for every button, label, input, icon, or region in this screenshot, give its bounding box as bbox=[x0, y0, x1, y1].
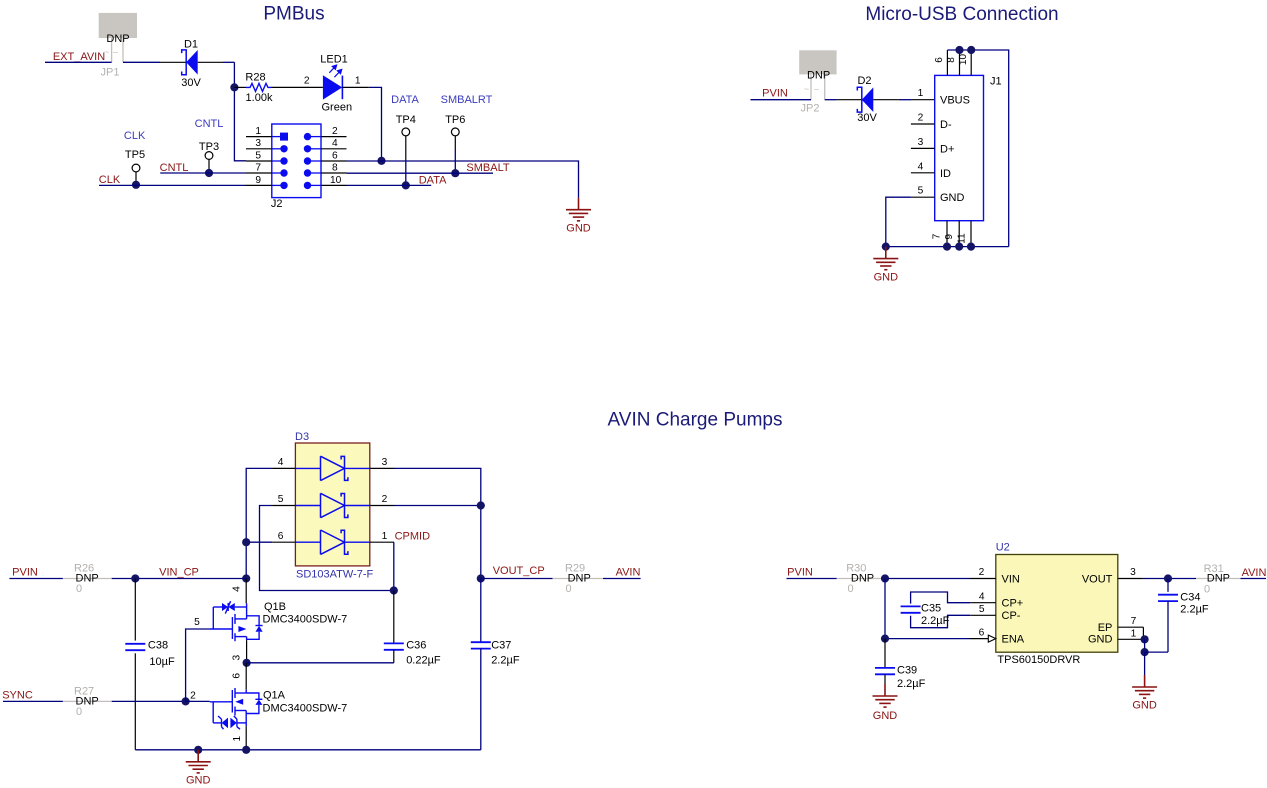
junction EP/GND bbox=[1141, 635, 1149, 643]
svg-text:CLK: CLK bbox=[124, 130, 146, 142]
svg-text:–: – bbox=[113, 47, 118, 57]
wire PVIN (U2) bbox=[787, 578, 837, 580]
svg-text:2: 2 bbox=[918, 113, 924, 124]
svg-text:3: 3 bbox=[918, 137, 924, 148]
wire CLK row9 bbox=[99, 184, 246, 186]
wire R31 to AVIN bbox=[1241, 578, 1267, 580]
round pads bbox=[280, 145, 287, 152]
channel stubs bbox=[235, 692, 246, 694]
svg-text:9: 9 bbox=[944, 234, 955, 240]
junction GND symbol bbox=[194, 746, 202, 754]
junction VOUT/C34 bbox=[1164, 574, 1172, 582]
resistor R29 DNP 0 bbox=[553, 578, 604, 580]
svg-text:1: 1 bbox=[255, 126, 261, 137]
svg-text:DNP: DNP bbox=[851, 572, 874, 584]
wire D3 pin5 down to CPMID bbox=[260, 506, 394, 591]
transistor Q1B DMC3400SDW-7 bbox=[209, 579, 347, 663]
capacitor C37 2.2uF bbox=[480, 579, 482, 643]
svg-text:D2: D2 bbox=[857, 75, 871, 87]
wire D3 pin4/pin6 left vertical bbox=[246, 468, 272, 578]
source lead to GND row bbox=[245, 726, 247, 750]
wire R30 to VIN bbox=[881, 578, 970, 580]
svg-text:GND: GND bbox=[186, 775, 211, 787]
svg-text:4: 4 bbox=[278, 457, 284, 468]
svg-text:3: 3 bbox=[382, 457, 388, 468]
svg-text:0: 0 bbox=[566, 583, 572, 595]
wire LED1 to row6 bbox=[342, 86, 368, 88]
svg-text:EP: EP bbox=[1098, 622, 1113, 634]
wire C34 bottom to junction bbox=[1145, 651, 1168, 653]
channel arrow bbox=[238, 626, 246, 632]
svg-text:2: 2 bbox=[190, 691, 196, 702]
svg-text:10: 10 bbox=[958, 54, 969, 66]
svg-text:U2: U2 bbox=[996, 542, 1010, 554]
svg-text:GND: GND bbox=[940, 192, 965, 204]
svg-text:8: 8 bbox=[332, 162, 338, 173]
wire R29 to AVIN bbox=[603, 578, 641, 580]
svg-text:1: 1 bbox=[382, 531, 388, 542]
body diode triangle bbox=[256, 626, 263, 632]
svg-text:30V: 30V bbox=[181, 77, 201, 89]
svg-text:EXT_AVIN: EXT_AVIN bbox=[53, 51, 105, 63]
wire PVIN bbox=[751, 99, 812, 101]
capacitor C34 2.2uF bbox=[1167, 579, 1169, 592]
wire pin3 to C36 bbox=[247, 662, 394, 664]
wire PVIN to ENA bbox=[884, 579, 886, 639]
svg-text:DNP: DNP bbox=[1207, 573, 1230, 585]
svg-text:TP6: TP6 bbox=[445, 114, 465, 126]
svg-text:TP4: TP4 bbox=[396, 114, 416, 126]
pin leads bbox=[970, 579, 1145, 640]
ENA input arrow bbox=[988, 635, 996, 642]
svg-text:CNTL: CNTL bbox=[160, 162, 189, 174]
gate bar bbox=[231, 617, 233, 639]
test point TP3 bbox=[199, 141, 219, 177]
wire to Q1A gate bbox=[186, 700, 210, 702]
svg-text:D3: D3 bbox=[295, 431, 309, 443]
svg-text:3: 3 bbox=[231, 655, 242, 661]
svg-text:6: 6 bbox=[979, 627, 985, 638]
zener bars with ticks bbox=[221, 719, 223, 727]
svg-text:C35: C35 bbox=[921, 603, 941, 615]
wire JP1 to D1 bbox=[123, 61, 160, 63]
svg-text:AVIN Charge Pumps: AVIN Charge Pumps bbox=[608, 410, 783, 431]
svg-text:2.2µF: 2.2µF bbox=[897, 678, 926, 690]
svg-text:J1: J1 bbox=[990, 76, 1002, 88]
wire R26 to VIN_CP bbox=[112, 578, 247, 580]
transistor Q1A DMC3400SDW-7 bbox=[210, 663, 348, 750]
svg-text:0: 0 bbox=[76, 706, 82, 718]
wire EXT_AVIN bbox=[45, 61, 112, 63]
diode D3a bbox=[321, 456, 348, 480]
junction SYNC gates bbox=[182, 697, 190, 705]
svg-text:CNTL: CNTL bbox=[195, 118, 224, 130]
svg-text:30V: 30V bbox=[857, 112, 877, 124]
junction top 8 bbox=[955, 46, 963, 54]
svg-text:3: 3 bbox=[1130, 567, 1136, 578]
wire D3 pin2 bbox=[394, 505, 481, 507]
pin names bbox=[1002, 573, 1113, 645]
svg-text:GND: GND bbox=[566, 223, 591, 235]
junction R28 bbox=[230, 83, 238, 91]
test point TP4 bbox=[396, 114, 416, 189]
svg-text:6: 6 bbox=[278, 531, 284, 542]
pin numbers bbox=[979, 567, 1137, 639]
svg-text:C37: C37 bbox=[491, 640, 511, 652]
wire D3 pin3 right vertical bbox=[394, 468, 481, 578]
junction VIN_CP bbox=[242, 574, 250, 582]
capacitor C39 2.2uF bbox=[884, 639, 886, 668]
ground GND (PMBus) bbox=[566, 198, 591, 221]
junction top 10 bbox=[967, 46, 975, 54]
svg-text:VOUT_CP: VOUT_CP bbox=[493, 565, 545, 577]
svg-text:1: 1 bbox=[1131, 628, 1137, 639]
svg-text:J2: J2 bbox=[271, 198, 283, 210]
svg-text:PVIN: PVIN bbox=[787, 567, 813, 579]
svg-text:VOUT: VOUT bbox=[1082, 573, 1113, 585]
svg-text:0: 0 bbox=[848, 583, 854, 595]
svg-text:CLK: CLK bbox=[99, 174, 121, 186]
svg-text:5: 5 bbox=[278, 494, 284, 505]
svg-text:5: 5 bbox=[255, 150, 261, 161]
pin 1 square pad bbox=[280, 133, 288, 141]
svg-text:D+: D+ bbox=[940, 143, 954, 155]
svg-text:AVIN: AVIN bbox=[1242, 567, 1267, 579]
svg-text:D1: D1 bbox=[184, 39, 198, 51]
resistor R26 DNP 0 bbox=[63, 578, 112, 580]
svg-text:2: 2 bbox=[304, 76, 310, 87]
junction bottom 9 bbox=[955, 243, 963, 251]
svg-text:DMC3400SDW-7: DMC3400SDW-7 bbox=[263, 703, 348, 715]
svg-text:2.2µF: 2.2µF bbox=[921, 615, 950, 627]
svg-text:GND: GND bbox=[1132, 700, 1157, 712]
gate wire to gate bar bbox=[209, 628, 232, 630]
svg-text:C38: C38 bbox=[148, 640, 168, 652]
top pin leads 6,8,10 bbox=[947, 50, 971, 75]
body diode triangle bbox=[255, 700, 262, 705]
wire row10 DATA bbox=[347, 184, 432, 186]
svg-text:TPS60150DRVR: TPS60150DRVR bbox=[997, 654, 1080, 666]
svg-text:SYNC: SYNC bbox=[2, 690, 33, 702]
gate wire bbox=[210, 701, 233, 703]
wire row6 to GND bbox=[347, 161, 579, 198]
svg-text:GND: GND bbox=[873, 710, 898, 722]
left pin leads 2..5 bbox=[911, 124, 935, 197]
wire bottom row bbox=[886, 246, 1009, 248]
drain lead from pin3 junction bbox=[245, 663, 247, 690]
svg-text:DNP: DNP bbox=[106, 33, 129, 45]
svg-text:Q1A: Q1A bbox=[263, 690, 286, 702]
svg-text:7: 7 bbox=[932, 233, 943, 239]
wire D1 to corner bbox=[198, 61, 223, 63]
channel stubs bbox=[234, 614, 236, 624]
junction ENA bbox=[881, 635, 889, 643]
wire VOUT_CP bbox=[481, 578, 553, 580]
ground GND (charge pump) bbox=[186, 750, 211, 773]
pad stubs bbox=[272, 137, 321, 186]
drain lead from VIN_CP bbox=[245, 579, 247, 604]
svg-text:4: 4 bbox=[918, 161, 924, 172]
junction Q1A source bbox=[242, 746, 250, 754]
wire junction to ground bbox=[1144, 652, 1146, 675]
svg-text:D-: D- bbox=[940, 119, 952, 131]
svg-text:2.2µF: 2.2µF bbox=[491, 655, 520, 667]
wire pin5 to GND bbox=[911, 196, 935, 198]
wire VOUT to AVIN bbox=[1143, 578, 1196, 580]
pin numbers left bbox=[918, 88, 924, 197]
wire D2 to J1 bbox=[873, 99, 899, 101]
junction pin2 bbox=[477, 501, 485, 509]
jumper JP2 (DNP) bbox=[799, 50, 836, 114]
svg-text:SD103ATW-7-F: SD103ATW-7-F bbox=[296, 569, 374, 581]
capacitor C36 0.22uF bbox=[393, 591, 395, 644]
wire vertical to R28 junction and J2 pin5 bbox=[234, 62, 246, 161]
junction bottom 11 bbox=[967, 243, 975, 251]
diode D1 30V bbox=[182, 50, 198, 75]
svg-text:AVIN: AVIN bbox=[616, 567, 641, 579]
svg-text:VBUS: VBUS bbox=[940, 95, 970, 107]
protection zener triangles bbox=[222, 603, 228, 611]
ground GND (C39) bbox=[873, 684, 898, 707]
svg-text:11: 11 bbox=[957, 233, 968, 244]
svg-text:2: 2 bbox=[979, 567, 985, 578]
wire R27 to gates bbox=[112, 700, 186, 702]
channel arrow bbox=[235, 699, 243, 705]
svg-text:PMBus: PMBus bbox=[263, 3, 324, 24]
svg-text:C34: C34 bbox=[1180, 592, 1200, 604]
resistor R31 DNP 0 bbox=[1196, 578, 1241, 580]
gate vertical + protection zener row bbox=[212, 607, 214, 629]
svg-text:SMBALRT: SMBALRT bbox=[441, 94, 493, 106]
body diode branch bbox=[247, 616, 260, 626]
bottom pin leads 7,9,11 bbox=[947, 221, 971, 247]
body diode branch bbox=[246, 693, 259, 699]
svg-text:–: – bbox=[814, 84, 819, 94]
svg-text:4: 4 bbox=[231, 586, 242, 592]
svg-text:5: 5 bbox=[979, 604, 985, 615]
svg-text:6: 6 bbox=[332, 150, 338, 161]
wire GND pin down bbox=[1144, 639, 1146, 652]
wire JP2 to D2 bbox=[825, 99, 837, 101]
svg-text:4: 4 bbox=[979, 591, 985, 602]
resistor R30 DNP 0 bbox=[837, 578, 882, 580]
ground GND (U2) bbox=[1132, 675, 1157, 698]
svg-text:ID: ID bbox=[940, 168, 951, 180]
zener triangles bbox=[222, 718, 228, 729]
svg-text:R28: R28 bbox=[245, 72, 265, 84]
source lead to pin3 bbox=[246, 640, 248, 663]
pin names bbox=[940, 95, 970, 205]
resistor R28 1.00k bbox=[234, 86, 246, 88]
diode D3b bbox=[321, 493, 348, 517]
junction C38 bbox=[131, 574, 139, 582]
junction PVIN/C39 bbox=[881, 574, 889, 582]
svg-text:CP-: CP- bbox=[1002, 610, 1021, 622]
svg-text:4: 4 bbox=[332, 138, 338, 149]
svg-text:7: 7 bbox=[1131, 616, 1137, 627]
LED LED1 Green bbox=[320, 54, 352, 114]
test point TP6 bbox=[445, 114, 465, 177]
gate bar bbox=[231, 690, 233, 713]
connector J2 bbox=[246, 124, 347, 210]
svg-text:ENA: ENA bbox=[1002, 634, 1025, 646]
svg-text:DMC3400SDW-7: DMC3400SDW-7 bbox=[263, 614, 348, 626]
wire D3 pin1 down to CPMID bbox=[393, 542, 395, 590]
svg-text:CPMID: CPMID bbox=[395, 531, 431, 543]
resistor R27 DNP 0 bbox=[63, 700, 112, 702]
drain/source verticals bbox=[245, 690, 247, 693]
wire CNTL row7 bbox=[160, 172, 246, 174]
wire SYNC row bbox=[3, 700, 63, 702]
svg-text:JP1: JP1 bbox=[101, 67, 120, 79]
junction CPMID bbox=[390, 586, 398, 594]
test point TP5 bbox=[125, 149, 145, 189]
svg-text:3: 3 bbox=[255, 138, 261, 149]
svg-text:5: 5 bbox=[194, 617, 200, 628]
svg-text:VIN: VIN bbox=[1002, 573, 1020, 585]
drain/source verticals bbox=[246, 603, 248, 619]
svg-text:1: 1 bbox=[355, 76, 361, 87]
junction VOUT_CP bbox=[477, 574, 485, 582]
svg-text:6: 6 bbox=[934, 57, 945, 63]
wire R28 to LED1 bbox=[271, 86, 323, 88]
svg-text:C39: C39 bbox=[897, 665, 917, 677]
svg-text:2: 2 bbox=[332, 126, 338, 137]
junction bottom GND bbox=[882, 243, 890, 251]
wire EP down to GND pin bbox=[1142, 627, 1144, 639]
gate vertical to zeners bbox=[212, 702, 214, 723]
ground GND (USB) bbox=[873, 247, 898, 270]
junction bottom 7 bbox=[943, 243, 951, 251]
svg-text:VIN_CP: VIN_CP bbox=[159, 567, 199, 579]
svg-text:DATA: DATA bbox=[419, 175, 447, 187]
svg-text:10µF: 10µF bbox=[149, 656, 175, 668]
svg-text:2: 2 bbox=[382, 494, 388, 505]
svg-text:0: 0 bbox=[1204, 584, 1210, 596]
svg-text:Q1B: Q1B bbox=[264, 601, 286, 613]
left leads bbox=[246, 137, 347, 186]
svg-text:PVIN: PVIN bbox=[12, 567, 38, 579]
svg-text:DATA: DATA bbox=[391, 94, 419, 106]
svg-text:CP+: CP+ bbox=[1002, 598, 1024, 610]
svg-text:TP5: TP5 bbox=[125, 149, 145, 161]
junction pin3/C36 bbox=[243, 659, 251, 667]
svg-text:JP2: JP2 bbox=[801, 103, 820, 115]
junction pin6 bbox=[242, 538, 250, 546]
leads bbox=[272, 468, 394, 542]
svg-text:Micro-USB Connection: Micro-USB Connection bbox=[865, 4, 1058, 25]
diode D2 30V bbox=[857, 87, 873, 112]
svg-text:Green: Green bbox=[322, 102, 353, 114]
capacitor C35 2.2uF loop bbox=[911, 592, 971, 628]
wire PVIN row bbox=[9, 578, 63, 580]
svg-text:1: 1 bbox=[918, 88, 924, 99]
svg-text:8: 8 bbox=[946, 57, 957, 63]
svg-text:0: 0 bbox=[76, 583, 82, 595]
svg-text:10: 10 bbox=[330, 175, 342, 186]
wire row8 SMBALT bbox=[347, 172, 494, 174]
IC U2 TPS60150DRVR bbox=[970, 542, 1145, 667]
svg-text:LED1: LED1 bbox=[320, 54, 348, 66]
bottom GND wire bbox=[135, 749, 481, 751]
svg-text:5: 5 bbox=[918, 186, 924, 197]
svg-text:C36: C36 bbox=[406, 640, 426, 652]
svg-text:6: 6 bbox=[231, 673, 242, 679]
connector J1 bbox=[911, 50, 1002, 247]
diode D3c bbox=[321, 530, 348, 554]
svg-text:1: 1 bbox=[232, 736, 243, 742]
svg-text:9: 9 bbox=[255, 175, 261, 186]
junction row6 bbox=[377, 157, 385, 165]
jumper JP1 (DNP) bbox=[99, 13, 137, 79]
svg-text:1.00k: 1.00k bbox=[246, 92, 273, 104]
capacitor C38 10uF bbox=[134, 579, 136, 641]
wire to Q1B gate bbox=[186, 629, 210, 701]
diode array D3 bbox=[272, 431, 394, 581]
pin numbers bbox=[255, 126, 341, 186]
svg-text:7: 7 bbox=[255, 162, 261, 173]
junction C34 bottom bbox=[1141, 648, 1149, 656]
svg-text:~: ~ bbox=[804, 84, 809, 94]
svg-text:2.2µF: 2.2µF bbox=[1180, 604, 1209, 616]
wire top pins to right side bbox=[947, 50, 1008, 247]
svg-text:DNP: DNP bbox=[807, 70, 830, 82]
svg-text:PVIN: PVIN bbox=[762, 88, 788, 100]
svg-text:GND: GND bbox=[1088, 634, 1113, 646]
svg-text:GND: GND bbox=[874, 271, 899, 283]
svg-text:0.22µF: 0.22µF bbox=[406, 655, 441, 667]
pin numbers bbox=[278, 457, 388, 542]
svg-text:SMBALT: SMBALT bbox=[466, 162, 509, 174]
